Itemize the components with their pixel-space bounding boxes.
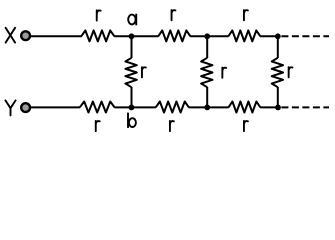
wire R6 to node (bottom, 3rd) bbox=[260, 106, 278, 108]
node label a bbox=[128, 14, 136, 26]
resistor r (vertical, 3rd) bbox=[272, 58, 283, 87]
wire Y to R4 bbox=[31, 106, 80, 108]
value label r (bottom row, 1st) bbox=[96, 121, 100, 131]
value label r (top row, 3rd) bbox=[244, 10, 248, 20]
resistor r (top row, 1st) bbox=[81, 30, 114, 41]
wire node 2 down to vertical resistor 2 bbox=[206, 36, 208, 58]
value label r (vertical, 3rd) bbox=[289, 67, 293, 77]
wire R3 to node 3 bbox=[260, 35, 278, 37]
terminal X bbox=[21, 31, 30, 40]
wire vertical resistor 3 down to bottom rail bbox=[277, 87, 279, 107]
terminal Y bbox=[21, 103, 30, 112]
value label r (bottom row, 3rd) bbox=[244, 121, 248, 131]
resistor r (bottom row, 1st) bbox=[80, 102, 115, 113]
node a junction dot bbox=[129, 33, 135, 39]
resistor r (vertical, 1st, between a and b) bbox=[125, 58, 136, 87]
value label r (top row, 2nd) bbox=[172, 10, 176, 20]
resistor r (bottom row, 2nd) bbox=[156, 102, 189, 113]
terminal label Y bbox=[5, 100, 15, 115]
node junction dot (top, 2nd) bbox=[204, 33, 210, 39]
wire vertical resistor 2 down to bottom rail bbox=[206, 87, 208, 107]
wire vertical resistor 1 down to node b bbox=[131, 87, 133, 107]
node junction dot (top, 3rd) bbox=[275, 33, 281, 39]
wire R2 to node 2 bbox=[190, 35, 228, 37]
dashed continuation wire (top right) bbox=[281, 35, 329, 37]
resistor r (top row, 3rd) bbox=[228, 30, 260, 41]
wire R4 to node b bbox=[114, 106, 155, 108]
node junction dot (bottom, 2nd) bbox=[204, 105, 210, 111]
wire X to R1 bbox=[31, 35, 82, 37]
node junction dot (bottom, 3rd) bbox=[275, 105, 281, 111]
wire R1 to node a bbox=[114, 35, 158, 37]
value label r (vertical, 2nd) bbox=[222, 68, 226, 78]
dashed continuation wire (bottom right) bbox=[281, 106, 329, 108]
node b junction dot bbox=[129, 105, 135, 111]
value label r (bottom row, 2nd) bbox=[170, 121, 174, 131]
resistor r (top row, 2nd) bbox=[158, 30, 190, 41]
terminal label X bbox=[6, 28, 16, 43]
resistor r (vertical, 2nd) bbox=[201, 58, 212, 87]
wire R5 to node (bottom, 2nd) bbox=[189, 106, 229, 108]
wire node 3 down to vertical resistor 3 bbox=[277, 36, 279, 58]
value label r (vertical, 1st) bbox=[142, 67, 146, 77]
resistor r (bottom row, 3rd) bbox=[228, 102, 260, 113]
value label r (top row, 1st) bbox=[97, 10, 101, 20]
node label b bbox=[128, 113, 136, 128]
wire node a down to vertical resistor 1 bbox=[131, 36, 133, 58]
